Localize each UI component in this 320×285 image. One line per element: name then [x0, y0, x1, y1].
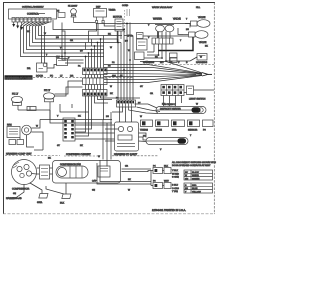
- wires P5 up to solenoid: [162, 32, 170, 39]
- wires TB1 down: [164, 96, 182, 107]
- svg-text:WTR: WTR: [127, 35, 133, 38]
- svg-text:VALVE: VALVE: [173, 18, 181, 21]
- harness label bar FC tube: [5, 75, 33, 80]
- svg-text:COMPRESSOR: COMPRESSOR: [12, 188, 30, 191]
- wires below compressor: [9, 183, 66, 199]
- wires J2 to defblock: [75, 104, 115, 136]
- note text block: [172, 161, 216, 167]
- harness comp dashed label: [5, 153, 60, 156]
- svg-text:COMPRESS CABINET: COMPRESS CABINET: [66, 153, 91, 156]
- connector P3A strip lower: [83, 90, 108, 97]
- svg-text:W: W: [36, 125, 38, 128]
- water valve V2: [183, 31, 208, 39]
- start relay box: [53, 161, 121, 184]
- junction dots: [61, 23, 167, 71]
- door switch S1: [12, 96, 23, 110]
- svg-text:FZ LT: FZ LT: [12, 93, 19, 96]
- svg-text:B BLU: B BLU: [172, 184, 179, 187]
- wires defblock to heater2: [75, 129, 146, 142]
- svg-text:BU: BU: [185, 187, 188, 190]
- svg-text:O ORG: O ORG: [172, 187, 179, 190]
- svg-text:BLK: BLK: [60, 202, 65, 205]
- svg-text:600 W 230 V: 600 W 230 V: [163, 103, 176, 106]
- wires aux fan cluster: [20, 120, 112, 151]
- terminal block TB1: [161, 85, 184, 96]
- svg-text:FUSE: FUSE: [156, 129, 162, 132]
- svg-text:W: W: [200, 56, 202, 59]
- svg-text:DR: DR: [70, 75, 74, 78]
- svg-text:12784401 PRINTED IN U.S.A.: 12784401 PRINTED IN U.S.A.: [152, 209, 186, 212]
- isolation box: [137, 33, 144, 39]
- terminal tag 1: [37, 194, 48, 205]
- svg-text:HARNESS-AB: HARNESS-AB: [6, 197, 22, 200]
- svg-text:DE.: DE.: [27, 67, 31, 70]
- svg-text:WHITE: WHITE: [192, 174, 199, 177]
- harness dashed separator left: [33, 77, 133, 79]
- aux box right of TB1: [187, 86, 194, 95]
- svg-text:W: W: [196, 103, 198, 106]
- door switch S2: [44, 93, 55, 110]
- defrost thermostat block: [115, 122, 139, 151]
- legend connector row: [140, 120, 213, 132]
- harness label fc light dashed: [112, 153, 158, 156]
- svg-text:GREEN: GREEN: [192, 177, 200, 180]
- relay box K2: [137, 39, 148, 50]
- thermal fuse F1: [115, 19, 123, 43]
- svg-text:W: W: [44, 32, 46, 35]
- control board U1: [9, 9, 57, 19]
- terminal tag 2: [60, 194, 71, 205]
- wires P4 to defblock: [112, 107, 132, 122]
- svg-text:YELLOW: YELLOW: [192, 190, 201, 193]
- svg-text:CAP: CAP: [92, 180, 97, 183]
- svg-text:WATER: WATER: [153, 18, 162, 21]
- aux switch box left: [56, 56, 68, 66]
- solenoid L1 dual coils: [155, 25, 174, 39]
- svg-text:CONTROL ASSEMBLY: CONTROL ASSEMBLY: [22, 6, 44, 9]
- wire diagonals P4 to heater: [129, 104, 161, 114]
- svg-text:DOOR: DOOR: [36, 75, 43, 78]
- svg-text:FZ LIGHT: FZ LIGHT: [68, 5, 78, 8]
- border frame: [3, 2, 215, 214]
- svg-text:T TAN: T TAN: [172, 190, 178, 193]
- svg-text:LIGHT SWITCH: LIGHT SWITCH: [189, 98, 206, 101]
- svg-text:VALVE: VALVE: [199, 41, 207, 44]
- wire staircase from board: [21, 20, 126, 57]
- svg-text:BLUE: BLUE: [192, 187, 198, 190]
- defrost switch box: [27, 63, 47, 72]
- connector boxes left of tables: [153, 165, 171, 189]
- wire stubs between strips: [86, 75, 104, 90]
- wire drops to defrost switch: [42, 26, 45, 63]
- water valve V1: [185, 20, 210, 28]
- wire switches to strips: [55, 81, 83, 96]
- connector P1 pins: [12, 18, 51, 23]
- wire stub table area: [148, 171, 164, 186]
- svg-text:W: W: [110, 85, 112, 88]
- svg-text:W: W: [185, 174, 187, 177]
- svg-text:MOTOR: MOTOR: [113, 16, 122, 19]
- svg-text:TIMER: TIMER: [109, 9, 116, 12]
- wires below strips fanning down: [86, 96, 141, 120]
- wire lamp to relay: [62, 22, 190, 63]
- svg-text:W RED: W RED: [172, 172, 179, 175]
- svg-text:W: W: [128, 189, 130, 192]
- svg-text:GRN.: GRN.: [37, 201, 43, 204]
- svg-text:COND: COND: [122, 4, 129, 7]
- label light switch dashed: [189, 98, 206, 101]
- svg-text:BLACK: BLACK: [192, 171, 199, 174]
- svg-text:FAN: FAN: [7, 124, 12, 127]
- wire code labels scattered: [13, 18, 208, 196]
- svg-text:W: W: [128, 49, 130, 52]
- svg-text:RED: RED: [192, 184, 197, 187]
- svg-text:HARNESS COMP UNIT: HARNESS COMP UNIT: [6, 153, 32, 156]
- svg-text:Y BLK: Y BLK: [172, 169, 178, 172]
- wire bundle vertical group B: [118, 23, 133, 101]
- svg-text:G GRN: G GRN: [172, 176, 179, 179]
- svg-text:WATER VALVE ASSY: WATER VALVE ASSY: [152, 6, 173, 9]
- overload protector: [40, 165, 50, 179]
- svg-text:W: W: [110, 46, 112, 49]
- wires startbox risers: [103, 112, 111, 167]
- wire defsw hook: [47, 65, 57, 69]
- wire thick L from valve2: [158, 37, 193, 51]
- lamp FZ light: [71, 9, 77, 23]
- svg-text:THERM: THERM: [140, 129, 148, 132]
- svg-text:SENSOR: SENSOR: [188, 129, 198, 132]
- svg-text:HARNESS: HARNESS: [196, 61, 208, 64]
- wire color table 2: [184, 183, 213, 193]
- stacked connector boxes: [170, 53, 178, 63]
- defrost heater EL1 capsule: [156, 103, 206, 114]
- connector P3 strip middle: [83, 78, 108, 85]
- svg-text:CONTROL: CONTROL: [27, 13, 39, 16]
- right edge connector: [190, 54, 207, 62]
- wire switch link: [18, 107, 50, 120]
- wire bundle vertical group A: [86, 36, 104, 69]
- defrost heater EL2 capsule: [146, 138, 188, 145]
- svg-text:FZ LT: FZ LT: [44, 89, 51, 92]
- taper tip: [202, 73, 212, 76]
- wire long double bottom: [97, 160, 151, 184]
- wire TB1 to right edge: [184, 90, 214, 93]
- svg-text:W: W: [140, 115, 142, 118]
- vertical connector J2: [63, 118, 75, 141]
- svg-text:ALL DISCONNECT SWITCHES SHOWN: ALL DISCONNECT SWITCHES SHOWN WITH: [172, 161, 216, 164]
- wire valve feed: [143, 28, 188, 36]
- defrost heater dashed label left: [64, 153, 100, 156]
- connector P2 strip upper: [83, 68, 108, 75]
- wire color table 1: [184, 170, 213, 180]
- label stack beside tables: [172, 169, 179, 193]
- connector P5 strip: [152, 38, 173, 44]
- svg-text:DOOR OPEN AND CONTACTS AT REST: DOOR OPEN AND CONTACTS AT REST: [172, 164, 211, 167]
- svg-text:DEFROST HEATER: DEFROST HEATER: [160, 108, 181, 111]
- separator text tags right: [143, 61, 208, 64]
- wires P5 down: [144, 44, 190, 61]
- svg-text:DEF: DEF: [96, 6, 101, 9]
- svg-text:BLK: BLK: [164, 165, 169, 168]
- aux fan motor M2: [7, 124, 31, 145]
- relay K1: [94, 9, 107, 24]
- svg-text:GN: GN: [185, 177, 189, 180]
- compressor motor M1: [12, 160, 37, 191]
- harness taper bundle: [104, 62, 202, 83]
- svg-text:FC: FC: [50, 75, 53, 78]
- svg-text:COMPRESSOR FAN: COMPRESSOR FAN: [60, 163, 81, 166]
- svg-text:HARNESS FC LIGHT: HARNESS FC LIGHT: [114, 153, 138, 156]
- relay box K3: [135, 52, 145, 60]
- wires compressor to startbox: [32, 168, 53, 174]
- connector P4 bottom of bundle B: [117, 100, 136, 107]
- svg-text:HTR: HTR: [172, 129, 177, 132]
- ground arrows at board pins: [12, 22, 23, 30]
- svg-text:WHT: WHT: [164, 180, 169, 183]
- svg-text:HARNESS-FC TUBE: HARNESS-FC TUBE: [5, 76, 32, 80]
- top caption labels: [22, 4, 201, 9]
- harness dashed separator right: [140, 64, 214, 66]
- separator text tags left: [36, 75, 123, 78]
- wire risers left-mid: [50, 104, 89, 120]
- svg-text:VALVE: VALVE: [198, 16, 206, 19]
- hi-limit thermostat body: [58, 13, 65, 18]
- svg-text:W: W: [98, 155, 100, 158]
- wire faint pair top: [125, 9, 130, 33]
